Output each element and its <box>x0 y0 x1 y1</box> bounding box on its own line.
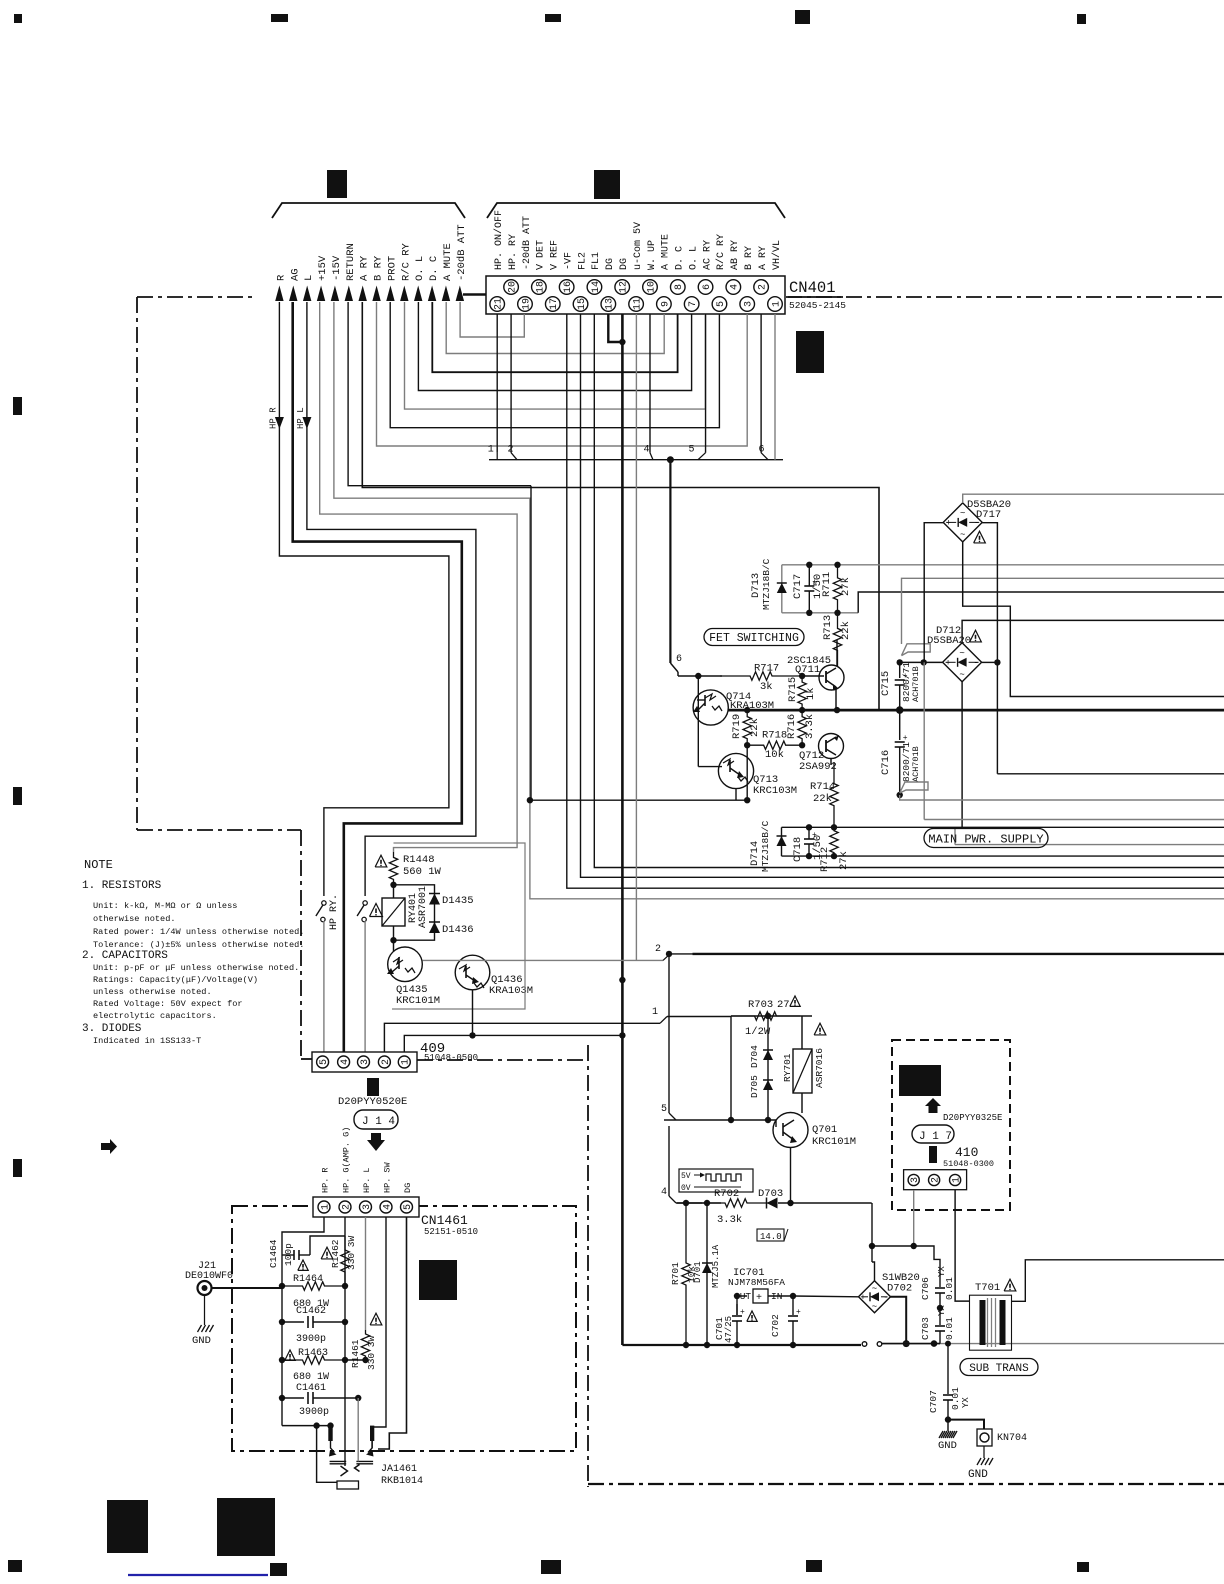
svg-text:2: 2 <box>508 445 514 456</box>
svg-text:2: 2 <box>341 1204 352 1210</box>
svg-text:R703: R703 <box>748 999 773 1011</box>
svg-text:MTZJ18B/C: MTZJ18B/C <box>761 558 772 610</box>
svg-text:YX: YX <box>937 1266 947 1277</box>
svg-text:HP. ON/OFF: HP. ON/OFF <box>493 210 505 270</box>
svg-text:T701: T701 <box>975 1282 1000 1294</box>
svg-text:HP R: HP R <box>268 407 278 429</box>
svg-text:5: 5 <box>319 1059 330 1065</box>
svg-text:O. L: O. L <box>688 246 699 270</box>
svg-text:D1435: D1435 <box>442 895 474 907</box>
svg-text:0.01: 0.01 <box>950 1387 961 1410</box>
svg-text:27k: 27k <box>838 851 850 870</box>
svg-text:D717: D717 <box>976 509 1001 521</box>
svg-text:330 3W: 330 3W <box>346 1235 357 1270</box>
svg-text:1: 1 <box>320 1204 331 1210</box>
svg-text:Indicated in 1SS133-T: Indicated in 1SS133-T <box>93 1036 201 1046</box>
svg-text:D20PYY0325E: D20PYY0325E <box>943 1113 1002 1123</box>
svg-text:+: + <box>860 1293 865 1303</box>
svg-text:1. RESISTORS: 1. RESISTORS <box>82 880 162 892</box>
svg-text:13: 13 <box>605 298 616 310</box>
svg-text:4: 4 <box>340 1059 351 1065</box>
svg-text:ASR7016: ASR7016 <box>814 1048 825 1088</box>
svg-text:CN1461: CN1461 <box>421 1213 468 1228</box>
svg-text:Rated Voltage: 50V expect for: Rated Voltage: 50V expect for <box>93 999 243 1009</box>
svg-text:1: 1 <box>952 1177 963 1183</box>
svg-text:electrolytic capacitors.: electrolytic capacitors. <box>93 1011 217 1021</box>
svg-text:6: 6 <box>759 445 765 456</box>
svg-text:HP L: HP L <box>296 407 306 429</box>
svg-text:YX: YX <box>937 1305 947 1316</box>
svg-text:0V: 0V <box>681 1184 691 1193</box>
svg-text:4: 4 <box>661 1187 667 1198</box>
svg-text:Tolerance: (J)±5% unless other: Tolerance: (J)±5% unless otherwise noted… <box>93 940 304 950</box>
svg-text:12: 12 <box>619 281 630 293</box>
svg-text:560 1W: 560 1W <box>403 866 442 878</box>
svg-text:CN401: CN401 <box>789 279 836 297</box>
svg-text:1: 1 <box>652 1007 658 1018</box>
svg-text:52045-2145: 52045-2145 <box>789 300 846 311</box>
svg-text:DG: DG <box>403 1183 413 1193</box>
svg-text:+: + <box>740 1308 745 1317</box>
svg-text:ACH701B: ACH701B <box>911 666 921 702</box>
svg-text:4: 4 <box>644 445 650 456</box>
svg-text:18: 18 <box>535 281 546 293</box>
svg-text:5: 5 <box>689 445 695 456</box>
svg-text:KRC103M: KRC103M <box>753 785 797 797</box>
svg-text:C702: C702 <box>770 1314 781 1337</box>
svg-text:8: 8 <box>674 284 685 290</box>
svg-text:R717: R717 <box>754 663 779 675</box>
svg-text:Ratings: Capacity(μF)/Voltage(: Ratings: Capacity(μF)/Voltage(V) <box>93 975 258 985</box>
svg-text:DG: DG <box>619 258 630 270</box>
svg-text:R719: R719 <box>731 714 743 739</box>
svg-text:KN704: KN704 <box>997 1433 1027 1444</box>
svg-text:10: 10 <box>646 281 657 293</box>
svg-text:22k: 22k <box>749 718 761 737</box>
svg-text:R716: R716 <box>786 714 798 739</box>
svg-text:~: ~ <box>959 648 964 658</box>
svg-text:1: 1 <box>771 301 782 307</box>
svg-text:ACH701B: ACH701B <box>911 746 921 782</box>
svg-text:14: 14 <box>591 281 602 293</box>
svg-text:HP. L: HP. L <box>362 1167 372 1193</box>
svg-text:V DET: V DET <box>536 240 547 270</box>
svg-text:330 3W: 330 3W <box>366 1335 377 1370</box>
svg-text:R1461: R1461 <box>350 1339 361 1368</box>
svg-text:A MUTE: A MUTE <box>442 243 454 281</box>
svg-text:D. C: D. C <box>675 246 686 270</box>
svg-text:17: 17 <box>549 298 560 310</box>
svg-text:SUB TRANS: SUB TRANS <box>969 1363 1029 1375</box>
svg-text:ASR7001: ASR7001 <box>418 886 429 928</box>
svg-text:R715: R715 <box>787 677 799 702</box>
svg-text:22k: 22k <box>840 621 852 640</box>
svg-text:1: 1 <box>401 1059 412 1065</box>
svg-text:u-Com 5V: u-Com 5V <box>633 222 644 270</box>
svg-text:22k: 22k <box>813 793 832 805</box>
svg-text:+15V: +15V <box>317 255 329 281</box>
svg-text:R711: R711 <box>821 572 833 597</box>
svg-text:GND: GND <box>968 1469 988 1481</box>
svg-text:DG: DG <box>605 258 616 270</box>
svg-text:C1464: C1464 <box>268 1239 279 1268</box>
svg-text:100p: 100p <box>283 1243 294 1266</box>
svg-text:AG: AG <box>289 268 301 281</box>
svg-text:JA1461: JA1461 <box>381 1464 417 1475</box>
svg-text:R718: R718 <box>762 730 787 742</box>
svg-text:unless otherwise noted.: unless otherwise noted. <box>93 987 212 997</box>
svg-text:2: 2 <box>931 1177 942 1183</box>
svg-text:D705: D705 <box>749 1075 760 1098</box>
svg-text:MAIN PWR. SUPPLY: MAIN PWR. SUPPLY <box>928 832 1043 846</box>
svg-text:3900p: 3900p <box>299 1407 329 1418</box>
svg-text:R712: R712 <box>819 847 831 872</box>
svg-text:1: 1 <box>488 445 494 456</box>
svg-text:D702: D702 <box>887 1283 912 1295</box>
svg-text:~: ~ <box>959 670 964 680</box>
svg-text:C703: C703 <box>920 1317 931 1340</box>
svg-text:D5SBA20: D5SBA20 <box>927 635 971 647</box>
svg-text:20: 20 <box>507 281 518 293</box>
svg-text:R1464: R1464 <box>293 1274 323 1285</box>
svg-text:3k: 3k <box>760 681 773 693</box>
svg-text:-20dB ATT: -20dB ATT <box>521 216 533 270</box>
svg-text:C1461: C1461 <box>296 1383 326 1394</box>
svg-text:D701: D701 <box>693 1261 703 1283</box>
svg-text:51048-0500: 51048-0500 <box>424 1053 478 1063</box>
svg-text:3900p: 3900p <box>296 1334 326 1345</box>
svg-text:D. C: D. C <box>428 256 440 281</box>
svg-text:27k: 27k <box>840 577 852 596</box>
svg-text:Unit: p-pF or μF unless otherw: Unit: p-pF or μF unless otherwise noted. <box>93 963 299 973</box>
svg-text:YX: YX <box>961 1397 971 1408</box>
svg-text:Q711: Q711 <box>795 664 820 676</box>
svg-text:V REF: V REF <box>550 240 561 270</box>
svg-text:FL1: FL1 <box>591 252 602 270</box>
svg-text:R714: R714 <box>810 781 835 793</box>
svg-text:21: 21 <box>494 298 505 310</box>
svg-text:4: 4 <box>382 1204 393 1210</box>
svg-text:GND: GND <box>192 1335 211 1347</box>
svg-text:+: + <box>796 1308 801 1317</box>
svg-text:A MUTE: A MUTE <box>661 234 672 270</box>
svg-text:+: + <box>946 519 951 529</box>
svg-text:16: 16 <box>563 281 574 293</box>
svg-text:2: 2 <box>655 944 661 955</box>
svg-text:~: ~ <box>960 530 965 540</box>
svg-text:AB RY: AB RY <box>730 240 741 270</box>
svg-text:D704: D704 <box>749 1045 760 1068</box>
svg-text:0.01: 0.01 <box>944 1317 955 1340</box>
svg-text:47/25: 47/25 <box>724 1316 734 1343</box>
svg-text:410: 410 <box>955 1145 978 1160</box>
svg-text:R1448: R1448 <box>403 854 435 866</box>
svg-text:3: 3 <box>910 1177 921 1183</box>
svg-text:C706: C706 <box>920 1277 931 1300</box>
svg-text:B RY: B RY <box>373 255 385 281</box>
svg-text:KRC101M: KRC101M <box>812 1136 856 1148</box>
svg-text:2: 2 <box>381 1059 392 1065</box>
svg-text:27: 27 <box>777 999 790 1011</box>
svg-text:5: 5 <box>716 301 727 307</box>
svg-text:+: + <box>756 1293 762 1304</box>
svg-text:3.3k: 3.3k <box>804 714 816 739</box>
svg-text:~: ~ <box>872 1302 877 1312</box>
svg-text:6: 6 <box>676 654 682 665</box>
svg-text:HP. RY: HP. RY <box>508 234 519 270</box>
svg-text:Unit: k-kΩ, M-MΩ or Ω unless: Unit: k-kΩ, M-MΩ or Ω unless <box>93 901 237 911</box>
svg-text:~: ~ <box>960 509 965 519</box>
svg-text:A RY: A RY <box>359 255 371 281</box>
svg-text:3: 3 <box>362 1204 373 1210</box>
svg-text:680 1W: 680 1W <box>293 1372 329 1383</box>
svg-text:0.01: 0.01 <box>944 1277 955 1300</box>
svg-text:D703: D703 <box>758 1188 783 1200</box>
svg-text:AC RY: AC RY <box>702 240 713 270</box>
svg-text:R/C RY: R/C RY <box>715 234 727 270</box>
svg-text:GND: GND <box>938 1440 957 1452</box>
svg-text:C707: C707 <box>928 1390 939 1413</box>
svg-text:R1462: R1462 <box>330 1239 341 1268</box>
svg-text:R701: R701 <box>670 1262 681 1285</box>
svg-text:C1462: C1462 <box>296 1306 326 1317</box>
svg-text:5V: 5V <box>681 1172 691 1181</box>
svg-text:DE010WF0: DE010WF0 <box>185 1271 233 1282</box>
svg-text:2: 2 <box>758 284 769 290</box>
svg-text:FET SWITCHING: FET SWITCHING <box>709 632 799 645</box>
svg-text:J 1 4: J 1 4 <box>362 1116 395 1128</box>
svg-text:-VF: -VF <box>563 252 574 270</box>
svg-text:2. CAPACITORS: 2. CAPACITORS <box>82 950 168 962</box>
svg-text:-15V: -15V <box>331 255 343 281</box>
svg-text:1/2W: 1/2W <box>745 1026 771 1038</box>
svg-text:3: 3 <box>744 301 755 307</box>
svg-text:19: 19 <box>521 298 532 310</box>
svg-text:5: 5 <box>661 1104 667 1115</box>
svg-text:Rated power: 1/4W unless other: Rated power: 1/4W unless otherwise noted… <box>93 927 304 937</box>
svg-text:10k: 10k <box>765 749 784 761</box>
svg-text:C715: C715 <box>880 671 892 696</box>
svg-text:NJM78M56FA: NJM78M56FA <box>728 1277 785 1288</box>
svg-text:otherwise noted.: otherwise noted. <box>93 914 176 924</box>
svg-text:-: - <box>973 658 979 669</box>
svg-text:4: 4 <box>730 284 741 290</box>
svg-text:MTZJ5.1A: MTZJ5.1A <box>711 1244 721 1288</box>
svg-text:RY701: RY701 <box>782 1053 793 1082</box>
svg-text:HP. SW: HP. SW <box>383 1161 393 1193</box>
svg-text:HP. G(AMP. G): HP. G(AMP. G) <box>342 1127 352 1193</box>
svg-text:R: R <box>275 274 287 281</box>
svg-text:C718: C718 <box>792 837 804 862</box>
svg-text:15: 15 <box>577 298 588 310</box>
svg-text:C717: C717 <box>792 574 804 599</box>
svg-text:5: 5 <box>403 1204 414 1210</box>
svg-text:J 1 7: J 1 7 <box>919 1131 952 1143</box>
svg-text:HP. R: HP. R <box>321 1167 331 1193</box>
svg-text:KRC101M: KRC101M <box>396 995 440 1007</box>
svg-text:B RY: B RY <box>744 246 755 270</box>
svg-text:R/C RY: R/C RY <box>400 242 412 281</box>
svg-text:O. L: O. L <box>414 256 426 281</box>
svg-text:NOTE: NOTE <box>84 858 113 872</box>
svg-text:RETURN: RETURN <box>345 243 357 281</box>
svg-text:HP RY.: HP RY. <box>329 894 340 930</box>
svg-text:R702: R702 <box>714 1188 739 1200</box>
svg-text:11: 11 <box>633 298 644 310</box>
svg-text:6: 6 <box>702 284 713 290</box>
svg-text:A RY: A RY <box>758 246 769 270</box>
svg-text:MTZJ18B/C: MTZJ18B/C <box>760 820 771 872</box>
svg-text:FL2: FL2 <box>577 252 588 270</box>
svg-text:L: L <box>303 275 315 281</box>
svg-text:+: + <box>903 734 908 743</box>
svg-text:R1463: R1463 <box>298 1348 328 1359</box>
svg-text:9: 9 <box>660 301 671 307</box>
svg-text:Q701: Q701 <box>812 1124 837 1136</box>
svg-text:1k: 1k <box>805 687 817 700</box>
svg-text:VH/VL: VH/VL <box>771 240 783 270</box>
svg-text:~: ~ <box>872 1284 877 1294</box>
svg-text:7: 7 <box>688 301 699 307</box>
svg-text:52151-0510: 52151-0510 <box>424 1227 478 1237</box>
svg-text:-20dB ATT: -20dB ATT <box>456 224 468 281</box>
svg-text:3: 3 <box>360 1059 371 1065</box>
svg-text:W. UP: W. UP <box>647 240 658 270</box>
svg-text:D1436: D1436 <box>442 924 474 936</box>
svg-text:+: + <box>945 659 950 669</box>
svg-text:3.3k: 3.3k <box>717 1214 742 1226</box>
svg-text:R713: R713 <box>822 615 834 640</box>
svg-text:14.0: 14.0 <box>760 1232 782 1242</box>
svg-text:51048-0300: 51048-0300 <box>943 1159 994 1169</box>
svg-text:RKB1014: RKB1014 <box>381 1476 423 1487</box>
svg-text:C716: C716 <box>880 750 892 775</box>
svg-text:D20PYY0520E: D20PYY0520E <box>338 1096 407 1108</box>
svg-text:KRA103M: KRA103M <box>489 985 533 997</box>
svg-text:3. DIODES: 3. DIODES <box>82 1023 142 1035</box>
svg-text:PROT: PROT <box>386 256 398 281</box>
